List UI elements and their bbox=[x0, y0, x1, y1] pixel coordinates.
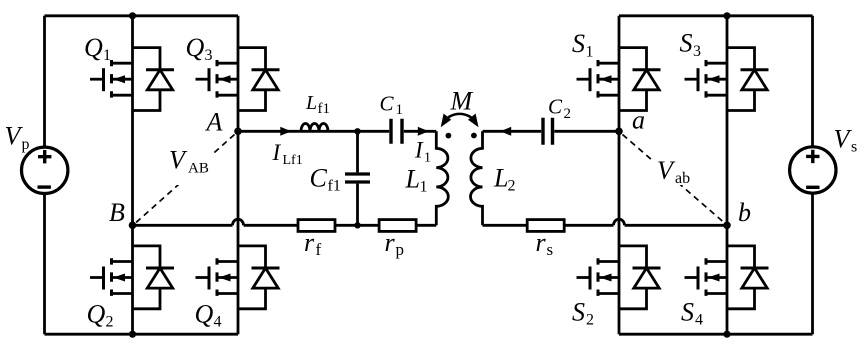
label V_ab bbox=[653, 157, 700, 185]
inductor L1 bbox=[436, 131, 448, 225]
svg-text:2: 2 bbox=[508, 178, 516, 195]
svg-text:3: 3 bbox=[693, 43, 701, 60]
svg-text:Lf1: Lf1 bbox=[283, 153, 303, 168]
transistor S1 bbox=[577, 48, 661, 111]
svg-text:1: 1 bbox=[586, 44, 594, 61]
source Vs bbox=[790, 147, 836, 193]
svg-text:1: 1 bbox=[396, 102, 404, 118]
svg-text:f1: f1 bbox=[318, 101, 331, 117]
transistor Q3 bbox=[196, 48, 280, 111]
svg-text:B: B bbox=[109, 198, 125, 227]
svg-text:L: L bbox=[405, 165, 420, 194]
svg-text:Q: Q bbox=[87, 300, 106, 329]
svg-text:I: I bbox=[414, 138, 424, 163]
svg-text:s: s bbox=[851, 139, 857, 156]
capacitor C1 bbox=[391, 119, 402, 144]
wire Vs top lead bbox=[811, 16, 814, 147]
node A bbox=[234, 128, 242, 136]
junction bottom rail Q2 leg bbox=[129, 331, 136, 338]
junction top rail Q1 leg bbox=[129, 12, 136, 19]
wire node A to C1 bbox=[238, 130, 389, 133]
svg-text:f: f bbox=[316, 240, 322, 259]
wire bottom rail right bridge bbox=[619, 333, 813, 336]
svg-text:V: V bbox=[834, 125, 853, 154]
svg-text:p: p bbox=[396, 240, 405, 259]
wire leg S1 S2 bbox=[618, 16, 621, 334]
svg-text:S: S bbox=[572, 29, 585, 58]
svg-text:2: 2 bbox=[106, 314, 114, 331]
svg-text:C: C bbox=[548, 95, 563, 119]
svg-text:S: S bbox=[681, 298, 694, 327]
transistor S4 bbox=[685, 246, 769, 309]
wire Vs bottom lead bbox=[811, 194, 814, 335]
polarity dot L2 bbox=[471, 133, 477, 139]
wire C1 to L1 bbox=[404, 130, 437, 133]
wire leg Q3 Q4 bbox=[237, 16, 240, 334]
node b bbox=[723, 222, 731, 230]
capacitor C2 bbox=[543, 118, 553, 145]
svg-text:b: b bbox=[738, 198, 751, 227]
wire leg S3 S4 bbox=[726, 16, 729, 334]
svg-text:4: 4 bbox=[214, 314, 222, 331]
wire Vp bottom lead bbox=[43, 193, 46, 334]
junction bottom rail S4 leg bbox=[723, 331, 730, 338]
wire top rail left bridge bbox=[45, 14, 239, 17]
svg-text:Q: Q bbox=[84, 33, 103, 62]
arrow I_1 bbox=[418, 127, 429, 136]
svg-text:1: 1 bbox=[424, 151, 431, 166]
dashed line V_AB bbox=[136, 135, 235, 223]
svg-text:2: 2 bbox=[564, 106, 572, 122]
transistor S2 bbox=[577, 246, 661, 309]
wire Vp top lead bbox=[43, 16, 46, 148]
transistor Q4 bbox=[196, 246, 280, 309]
svg-text:r: r bbox=[304, 228, 315, 257]
svg-text:A: A bbox=[205, 108, 223, 137]
label V_AB bbox=[163, 149, 212, 185]
junction C_f1 bottom bbox=[354, 222, 360, 228]
svg-text:r: r bbox=[385, 228, 396, 257]
source Vp bbox=[22, 147, 68, 193]
transistor Q2 bbox=[90, 246, 174, 309]
dashed line V_ab bbox=[623, 135, 725, 223]
inductor L_f1 bbox=[301, 123, 328, 131]
wire leg Q1 Q2 bbox=[131, 16, 134, 334]
svg-text:I: I bbox=[272, 140, 282, 165]
wire top rail right bridge bbox=[619, 14, 813, 17]
wire bottom rail left bridge bbox=[45, 333, 239, 336]
capacitor C_f1 bbox=[345, 131, 370, 225]
wire hop to L1 bottom bbox=[244, 224, 437, 227]
svg-text:Q: Q bbox=[195, 300, 214, 329]
svg-text:1: 1 bbox=[103, 47, 111, 64]
polarity dot L1 bbox=[446, 133, 452, 139]
svg-text:AB: AB bbox=[188, 161, 209, 177]
svg-text:ab: ab bbox=[675, 170, 690, 187]
arrow into L2 bbox=[500, 127, 511, 136]
wire L2 top to C2 bbox=[483, 130, 542, 133]
svg-text:a: a bbox=[632, 106, 645, 135]
junction top rail S3 leg bbox=[723, 12, 730, 19]
transistor S3 bbox=[685, 48, 769, 111]
svg-text:f1: f1 bbox=[328, 178, 341, 195]
inductor L2 bbox=[471, 131, 483, 225]
svg-text:S: S bbox=[572, 298, 585, 327]
svg-text:3: 3 bbox=[205, 47, 213, 64]
svg-text:C: C bbox=[380, 92, 395, 116]
node a bbox=[615, 128, 623, 136]
node B bbox=[129, 222, 137, 230]
svg-text:4: 4 bbox=[695, 312, 703, 329]
svg-text:S: S bbox=[680, 29, 693, 58]
svg-text:1: 1 bbox=[420, 179, 428, 196]
svg-text:L: L bbox=[493, 164, 508, 193]
wire L2 bottom to r_s bbox=[483, 224, 614, 227]
junction C_f1 top bbox=[354, 128, 360, 134]
svg-text:M: M bbox=[450, 87, 474, 116]
resistor r_f bbox=[298, 220, 335, 232]
wire hop to node b bbox=[625, 224, 728, 227]
mutual coupling arrow M bbox=[441, 114, 479, 128]
resistor r_s bbox=[527, 220, 564, 232]
svg-text:s: s bbox=[547, 240, 554, 259]
wire C2 to node a bbox=[554, 130, 619, 133]
svg-text:Q: Q bbox=[186, 33, 205, 62]
arrow I_Lf1 bbox=[280, 127, 291, 136]
svg-text:2: 2 bbox=[586, 312, 594, 329]
wire hop over Q3 leg bbox=[233, 219, 244, 225]
svg-text:L: L bbox=[305, 92, 317, 114]
wire node B to r_f and crossing bbox=[133, 224, 233, 227]
svg-text:C: C bbox=[310, 164, 328, 193]
resistor r_p bbox=[379, 220, 416, 232]
transistor Q1 bbox=[90, 48, 174, 111]
svg-text:r: r bbox=[536, 228, 547, 257]
wire hop over S1 leg bbox=[614, 219, 625, 225]
svg-text:p: p bbox=[22, 136, 30, 153]
